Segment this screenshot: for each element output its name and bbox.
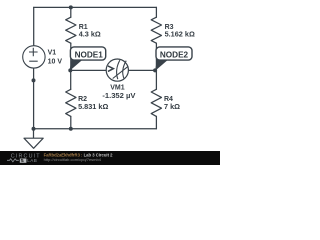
voltmeter VM1 body	[106, 59, 128, 81]
node label NODE2 box	[156, 47, 192, 60]
ground symbol	[24, 138, 43, 148]
node label NODE2 tail	[155, 59, 168, 71]
svg-text:5.831 kΩ: 5.831 kΩ	[78, 102, 108, 111]
wire node1 to voltmeter	[70, 69, 106, 71]
svg-text:LAB: LAB	[27, 158, 37, 163]
resistor R4	[151, 89, 161, 116]
node label NODE1 tail	[70, 59, 83, 71]
resistor R3	[151, 17, 161, 43]
svg-text:-1.352 µV: -1.352 µV	[102, 91, 136, 100]
wire bottom rail	[34, 128, 157, 130]
voltmeter needle	[113, 66, 129, 78]
voltage source V1	[23, 46, 45, 68]
wire R1 bottom lead to node1	[70, 43, 72, 70]
wire left rail upper	[33, 7, 35, 45]
svg-text:10 V: 10 V	[48, 59, 63, 66]
voltmeter scale arc 1	[117, 60, 120, 79]
junction dot node B	[153, 68, 157, 72]
svg-text:NODE1: NODE1	[75, 51, 104, 60]
wire R2 top lead	[70, 70, 72, 89]
svg-text:7 kΩ: 7 kΩ	[164, 102, 180, 111]
voltmeter scale arc 2	[123, 61, 126, 79]
resistor R2	[66, 89, 76, 116]
wire R4 bottom lead	[155, 116, 157, 128]
wire R2 bottom lead	[70, 116, 72, 128]
svg-text:5.162 kΩ: 5.162 kΩ	[165, 30, 195, 39]
svg-text:4.3 kΩ: 4.3 kΩ	[79, 30, 101, 39]
wire left rail lower	[33, 68, 35, 129]
svg-text:NODE2: NODE2	[160, 51, 189, 60]
svg-text:http://circuitlab.com/cpq/7esm: http://circuitlab.com/cpq/7esmb4	[44, 157, 102, 162]
ground stem	[33, 129, 35, 138]
junction dot node A	[68, 68, 72, 72]
wire R4 top lead	[155, 70, 157, 89]
junction dot below V1	[32, 78, 36, 82]
svg-text:V1: V1	[48, 50, 57, 57]
logo zigzag	[7, 159, 19, 162]
wire R3 bottom lead to node2	[155, 43, 157, 70]
junction dot top of R1	[69, 5, 73, 9]
V1 plus sign	[29, 48, 38, 56]
node label NODE1 box	[70, 47, 105, 60]
wire R3 top lead	[155, 7, 157, 17]
logo LAB	[20, 159, 27, 163]
junction dot ground	[32, 127, 36, 131]
wire R1 top lead	[70, 7, 72, 17]
wire voltmeter to node2	[129, 69, 157, 71]
resistor R1	[66, 17, 76, 43]
wire top rail	[34, 6, 157, 8]
voltmeter chevron	[108, 66, 114, 72]
V1 minus sign	[29, 60, 38, 62]
watermark bar	[0, 151, 220, 165]
junction dot R2 bottom	[69, 127, 73, 131]
